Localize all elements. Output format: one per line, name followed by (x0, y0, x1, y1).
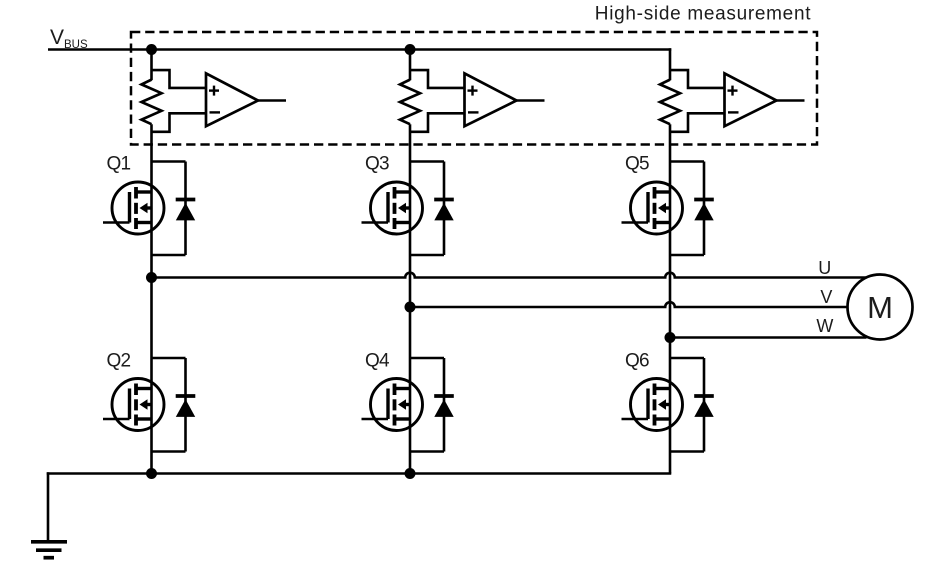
transistor Q1 (high-side MOSFET leg 1) (112, 182, 164, 234)
transistor Q4 (low-side MOSFET leg 2) (371, 379, 423, 431)
wire ground stem (47, 472, 50, 540)
svg-text:High-side measurement: High-side measurement (595, 4, 811, 25)
wire kelvin tap to op-amp - input (leg 3) (670, 113, 725, 132)
junction dot V_BUS / leg 1 (146, 44, 157, 55)
svg-text:Q5: Q5 (625, 154, 649, 175)
svg-text:U: U (818, 258, 831, 278)
shunt resistor (leg 2) (400, 80, 420, 125)
op-amp current-sense amplifier (leg 3) (725, 73, 777, 126)
wire V_BUS bus (horizontal) (48, 48, 671, 51)
shunt resistor (leg 1) (142, 80, 162, 125)
wire op-amp output (leg 1) (258, 99, 286, 102)
shunt resistor (leg 3) (660, 80, 680, 125)
wire kelvin tap to op-amp + input (leg 1) (152, 70, 207, 88)
wire kelvin tap to op-amp - input (leg 1) (152, 113, 207, 132)
svg-text:M: M (867, 290, 893, 325)
wire leg 2 rail top segment (409, 50, 412, 81)
wire phase U with crossover hops (152, 273, 867, 278)
transistor Q6 (low-side MOSFET leg 3) (631, 379, 683, 431)
transistor Q5 (high-side MOSFET leg 3) (631, 182, 683, 234)
junction dot phase V / leg 2 (405, 302, 416, 313)
wire phase V with crossover hop (410, 302, 848, 307)
wire op-amp output (leg 3) (777, 99, 805, 102)
wire leg 2 rail below shunt (409, 124, 412, 473)
wire kelvin tap to op-amp + input (leg 3) (670, 70, 725, 88)
op-amp current-sense amplifier (leg 2) (465, 73, 517, 126)
junction dot V_BUS / leg 2 (405, 44, 416, 55)
wire kelvin tap to op-amp + input (leg 2) (410, 70, 465, 88)
op-amp current-sense amplifier (leg 1) (206, 73, 258, 126)
body diode of Q4 (410, 357, 444, 360)
junction dot ground bus / leg 2 (405, 468, 416, 479)
junction dot phase W / leg 3 (665, 332, 676, 343)
wire leg 1 rail top segment (150, 50, 153, 81)
junction dot phase U / leg 1 (146, 272, 157, 283)
svg-text:Q3: Q3 (365, 154, 389, 175)
body diode of Q3 (410, 160, 444, 163)
svg-text:Q1: Q1 (107, 154, 131, 175)
svg-text:Q6: Q6 (625, 351, 649, 372)
svg-text:V: V (820, 287, 832, 307)
svg-text:Q4: Q4 (365, 351, 390, 372)
body diode of Q6 (670, 357, 704, 360)
svg-text:W: W (816, 316, 833, 336)
wire leg 1 rail below shunt (150, 124, 153, 473)
transistor Q3 (high-side MOSFET leg 2) (371, 182, 423, 234)
ground (31, 540, 67, 544)
wire leg 3 rail top segment (corner from bus) (669, 48, 672, 80)
body diode of Q1 (152, 160, 186, 163)
body diode of Q5 (670, 160, 704, 163)
wire phase W (670, 336, 867, 339)
wire op-amp output (leg 2) (517, 99, 545, 102)
motor M (848, 275, 913, 340)
wire leg 3 rail below shunt (669, 124, 672, 473)
junction dot ground bus / leg 1 (146, 468, 157, 479)
wire ground bus (horizontal) (47, 472, 672, 475)
transistor Q2 (low-side MOSFET leg 1) (112, 379, 164, 431)
wire kelvin tap to op-amp - input (leg 2) (410, 113, 465, 132)
body diode of Q2 (152, 357, 186, 360)
svg-text:Q2: Q2 (107, 351, 131, 372)
dashed box high-side measurement boundary (131, 32, 817, 145)
